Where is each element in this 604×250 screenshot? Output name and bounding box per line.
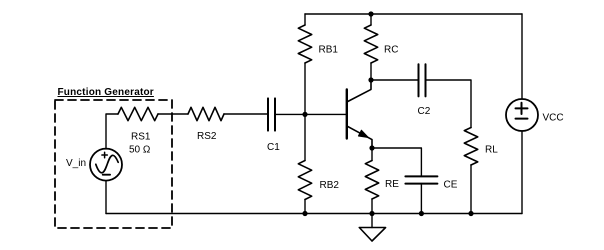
wire: RB1 top lead <box>304 14 306 25</box>
svg-text:Function Generator: Function Generator <box>58 87 154 98</box>
capacitor C2 <box>419 64 426 96</box>
svg-text:VCC: VCC <box>543 113 564 124</box>
svg-text:RL: RL <box>485 145 498 156</box>
wire: V_in top lead <box>106 114 118 149</box>
wire: C1 to base <box>275 113 347 115</box>
wire: RB1 bottom lead <box>304 63 306 114</box>
wire: RC bottom lead <box>370 63 372 80</box>
wire: emitter to CE <box>372 148 421 176</box>
node: RC top junction <box>368 11 373 16</box>
node: collector junction <box>368 77 373 82</box>
resistor RE <box>365 161 378 200</box>
ground <box>359 228 385 242</box>
node: CE ground junction <box>419 211 424 216</box>
wire: RB2 top lead <box>304 114 306 160</box>
node: ground junction <box>369 211 374 216</box>
wire: RE bottom lead <box>371 199 373 214</box>
svg-text:C1: C1 <box>267 142 280 153</box>
svg-text:RE: RE <box>385 179 399 190</box>
wire: RB2 bottom lead <box>304 200 306 214</box>
wire: CE bottom lead <box>420 184 422 214</box>
wire: RS1 to RS2 <box>158 113 188 115</box>
wire: collector to C2 <box>371 79 419 81</box>
svg-text:V_in: V_in <box>66 158 86 169</box>
node: base junction <box>302 112 307 117</box>
wire: RS2 to C1 <box>224 113 268 115</box>
node: RB2 ground junction <box>302 211 307 216</box>
resistor RB1 <box>298 25 311 63</box>
svg-text:RB2: RB2 <box>320 180 340 191</box>
svg-text:C2: C2 <box>418 106 431 117</box>
svg-text:RS1: RS1 <box>131 132 151 143</box>
resistor RC <box>364 25 377 63</box>
resistor RS2 <box>188 107 224 120</box>
resistor RB2 <box>298 161 311 200</box>
capacitor C1 <box>268 98 275 130</box>
svg-text:RC: RC <box>384 45 398 56</box>
transistor Q1 <box>347 80 372 148</box>
wire: VCC top lead <box>521 14 523 99</box>
svg-text:50 Ω: 50 Ω <box>129 145 151 156</box>
wire: RE top lead <box>371 148 373 161</box>
wire: RC top lead <box>370 14 372 25</box>
node: RL ground junction <box>468 211 473 216</box>
svg-text:CE: CE <box>444 180 458 191</box>
wire: C2 to RL <box>426 80 472 128</box>
source VCC <box>506 99 538 131</box>
source V_in <box>90 149 122 181</box>
wire: top power rail <box>305 13 522 15</box>
capacitor CE <box>405 176 437 183</box>
resistor RS1 <box>118 107 158 120</box>
node: emitter junction <box>369 145 374 150</box>
svg-text:RS2: RS2 <box>197 131 217 142</box>
wire: V_in bottom lead <box>105 181 107 214</box>
wire: VCC bottom lead <box>521 131 523 214</box>
wire: bottom ground rail <box>106 213 522 215</box>
function generator enclosure <box>55 100 172 228</box>
resistor RL <box>464 128 477 166</box>
svg-text:RB1: RB1 <box>319 45 339 56</box>
wire: RL bottom lead <box>470 165 472 214</box>
wire: ground stub <box>371 214 373 228</box>
